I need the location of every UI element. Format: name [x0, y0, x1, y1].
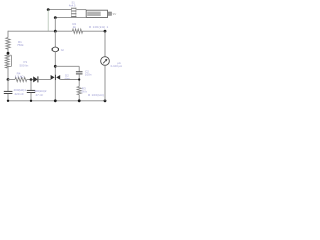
mid rail wire: [27, 79, 34, 81]
resistor R3: [77, 87, 81, 95]
junction: [104, 99, 107, 102]
wire: [54, 31, 56, 47]
wire: [76, 9, 86, 11]
potentiometer P1: [5, 55, 11, 68]
svg-text:R 100(kΩ) 1: R 100(kΩ) 1: [89, 25, 109, 29]
junction: [30, 100, 32, 102]
wire: [54, 52, 56, 75]
junction: [78, 99, 81, 102]
wire (light): [47, 10, 49, 32]
svg-text:9V: 9V: [113, 12, 117, 16]
svg-text:220 nF: 220 nF: [15, 92, 25, 96]
junction: [7, 100, 9, 102]
junction: [30, 78, 33, 81]
meter M1: [101, 57, 110, 66]
resistor R2: [72, 29, 82, 33]
mid rail wire: [60, 79, 79, 81]
battery B1: [86, 10, 111, 17]
capacitor C1 drop wire: [7, 80, 9, 92]
capacitor C3 drop wire: [30, 80, 32, 91]
node A: [47, 8, 50, 11]
wire: [7, 94, 9, 101]
bottom rail wire: [8, 100, 105, 102]
capacitor C3: [27, 90, 35, 92]
capacitor C2: [76, 72, 83, 74]
mid rail wire: [8, 79, 15, 81]
junction: [54, 99, 57, 102]
wire: [30, 93, 32, 101]
lamp G1: [52, 47, 58, 52]
svg-text:Gl: Gl: [61, 48, 64, 52]
wire: [104, 65, 106, 100]
svg-text:4x4.5: 4x4.5: [69, 3, 76, 7]
svg-text:1k: 1k: [73, 25, 77, 29]
junction: [104, 30, 107, 33]
wire: [54, 80, 56, 101]
wire: [78, 66, 80, 71]
mid rail wire: [38, 79, 50, 81]
junction: [78, 78, 80, 80]
junction: [54, 30, 57, 33]
svg-text:56 k: 56 k: [81, 89, 87, 93]
wire: [7, 67, 9, 80]
svg-text:1.5 kΩ: 1.5 kΩ: [15, 75, 25, 79]
left wire: [7, 31, 9, 38]
wire: [7, 48, 9, 55]
svg-text:47 nF: 47 nF: [36, 93, 44, 97]
diac D2: [51, 75, 61, 81]
svg-text:750k: 750k: [17, 43, 24, 47]
svg-text:R 100(kΩ): R 100(kΩ): [88, 93, 104, 97]
svg-text:100n: 100n: [85, 72, 92, 76]
top rail wire right: [82, 30, 105, 32]
wire: [78, 95, 80, 101]
wire: [104, 31, 106, 57]
svg-text:0-100 μA: 0-100 μA: [111, 64, 123, 68]
wire: [48, 9, 71, 11]
junction: [7, 52, 10, 55]
junction: [7, 78, 10, 81]
svg-text:500 lin: 500 lin: [20, 63, 29, 67]
diode D1: [33, 76, 38, 82]
resistor R1: [6, 38, 10, 50]
switch S1: [71, 8, 76, 18]
node B: [54, 16, 57, 19]
top rail wire: [8, 30, 72, 32]
wire: [55, 17, 86, 19]
wire: [55, 65, 79, 67]
wire: [54, 18, 56, 32]
junction: [54, 65, 57, 68]
capacitor C1: [4, 91, 13, 93]
resistor R4: [15, 77, 27, 81]
wire: [78, 74, 80, 86]
